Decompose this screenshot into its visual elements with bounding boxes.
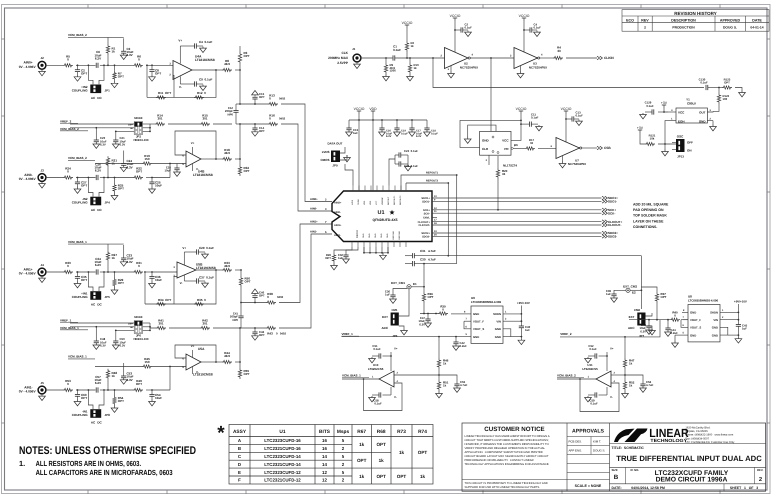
resistor R35 0 [194,302,204,305]
svg-text:OPT: OPT [259,129,265,133]
svg-text:LTC2321CUFD-12: LTC2321CUFD-12 [264,478,301,483]
capacitor C17 10uF 6.3V [411,120,413,128]
svg-text:SHDN: SHDN [493,312,501,316]
svg-text:1k: 1k [112,50,116,54]
svg-text:AIN1-: AIN1- [334,234,341,237]
rail VCCIO at U6 [519,111,523,114]
svg-text:NP0: NP0 [228,112,234,116]
title block outer box [462,423,766,491]
svg-text:U1: U1 [279,429,285,435]
U10 input from divider [394,374,439,376]
svg-text:CNVL: CNVL [423,217,430,220]
resistor R29 OPT [114,271,116,273]
capacitor C2 OPT [75,70,80,72]
svg-text:GND: GND [386,233,389,238]
svg-text:1k: 1k [359,474,365,479]
CSB output arrow [582,147,597,149]
capacitor C44 2.2uF [667,320,669,328]
svg-text:VERIFY PROPER AND RELIABLE OPE: VERIFY PROPER AND RELIABLE OPERATION IN … [465,447,546,450]
svg-text:OPT: OPT [81,396,87,400]
op-amp U4A LT1818CMS8 [173,61,192,80]
svg-text:TRUE DIFFERENTIAL INPUT DUAL A: TRUE DIFFERENTIAL INPUT DUAL ADC [616,454,762,463]
svg-text:OPT: OPT [376,442,386,447]
ground at CM1 ADC pin [401,329,408,335]
capacitor C25 10uF [149,182,154,184]
resistor R46 1k [437,358,440,369]
svg-text:AIN1+: AIN1+ [310,221,318,224]
svg-text:E2: E2 [632,291,636,295]
svg-text:U1: U1 [377,210,384,216]
svg-text:OUT: OUT [699,111,706,115]
capacitors C22 C23 0.1uF [395,154,399,156]
svg-text:OPT: OPT [428,295,434,299]
svg-text:LTC2321CUFD-14: LTC2321CUFD-14 [264,462,301,467]
svg-text:SHDN: SHDN [710,311,718,315]
svg-text:R12 0: R12 0 [197,91,206,95]
wire to series cap [76,271,96,273]
resistor R34 OPT [156,302,166,305]
svg-text:EXT_CM1: EXT_CM1 [391,281,405,285]
svg-text:GND: GND [712,326,718,330]
wire U1 output SDO2+ [432,232,602,234]
capacitor C11 0.1uF [521,123,529,125]
channel3 column down to AIN1+ net [240,287,242,303]
oscillator feedback line [433,58,704,88]
resistor R43 0 0402 [266,326,276,329]
U9 pin stubs [462,313,471,315]
svg-text:1k: 1k [379,458,385,463]
coupling jumper JP1 [88,65,93,84]
svg-text:33: 33 [530,141,534,145]
off-page arrow SDO1- [602,200,607,204]
capacitor C49 10uF 6.3V [648,320,650,326]
capacitor C40 1uF at U9 VIN rail [519,326,524,328]
U5B V- supply and capacitor C37 0.1uF [183,275,185,281]
resistor R17 33 [525,147,535,150]
svg-text:V-: V- [196,370,199,374]
svg-text:EXT: EXT [382,315,388,319]
svg-text:VOUT_S: VOUT_S [690,326,701,330]
svg-text:10uF: 10uF [155,396,162,400]
bias capacitor C33 10uF 6.3V [123,245,125,258]
U4A V+ supply and capacitor C4 0.1uF [179,46,181,64]
svg-text:APP ENG.: APP ENG. [569,448,583,452]
svg-text:2: 2 [759,476,762,483]
U4A feedback rail with R11 R12 [192,69,216,71]
svg-text:REFGND: REFGND [398,231,401,240]
svg-text:Phone: (408)432-1900 www.lin: Phone: (408)432-1900 www.linear.com [685,434,734,437]
resistor R31 0 [133,270,143,273]
capacitor C46 OPT hanging below [254,328,256,332]
svg-text:E: E [238,470,241,475]
svg-text:GND: GND [690,333,696,337]
svg-text:ADC: ADC [382,326,389,330]
svg-text:THIS CIRCUIT IS PROPRIETARY TO: THIS CIRCUIT IS PROPRIETARY TO LINEAR TE… [465,482,548,485]
capacitor C21 10uF 6.3V [115,131,117,140]
svg-text:ALL RESISTORS ARE IN OHMS, 060: ALL RESISTORS ARE IN OHMS, 0603. [36,459,142,468]
svg-text:NP0: NP0 [233,318,239,322]
ground stub below jumper common [664,144,666,149]
capacitor C42 2.2uF [455,337,457,342]
wire U1 output SCK+ [432,209,602,211]
resistor R51 1k [438,375,440,380]
svg-text:150: 150 [144,157,149,161]
customer notice divider [462,479,567,481]
capacitor C30 4.7uF [405,263,412,265]
svg-text:VREFBF: VREFBF [381,196,384,205]
svg-text:200MHz MAX: 200MHz MAX [328,56,349,60]
svg-text:100: 100 [723,97,728,101]
header right side ties [143,123,150,125]
resistor R6 0 [133,64,143,67]
svg-text:VIN: VIN [713,318,718,322]
svg-text:R74: R74 [418,429,427,435]
svg-text:HD2X3-100: HD2X3-100 [133,337,148,341]
svg-text:OPT: OPT [118,281,124,285]
wire JP9 to gnd stub [340,147,345,153]
wire to second series resistor [108,389,133,391]
wire header row3 [116,130,134,132]
svg-text:C4 0.1uF: C4 0.1uF [199,40,213,44]
svg-text:VDD: VDD [363,200,366,205]
svg-text:6.3V: 6.3V [127,260,133,264]
wire U2 to U3 [470,57,514,59]
svg-text:49.9: 49.9 [224,264,230,268]
off-page arrow SDO2+ [602,231,607,235]
frame zone tick marks left [2,39,5,423]
junction at coupling jumper left [88,389,90,391]
capacitor C19 0.1uF [396,120,398,128]
svg-text:F: F [238,478,241,483]
svg-text:16: 16 [322,446,327,451]
svg-text:1k: 1k [443,362,447,366]
svg-text:2: 2 [644,25,646,29]
U11 input from divider [611,374,625,376]
U6 PR output through R17 33 [511,147,513,149]
svg-text:2.5VPP: 2.5VPP [337,61,349,65]
wire U1 output SCK- [432,212,602,214]
svg-text:VREF_2: VREF_2 [560,332,572,336]
wire REFOUT1 drop to C30 line [456,175,458,264]
svg-text:PCB DES.: PCB DES. [569,439,583,443]
svg-text:ADD 20 MIL SQUARE: ADD 20 MIL SQUARE [633,203,669,207]
svg-text:REFOUT2: REFOUT2 [426,179,439,182]
op-amp U5A LT1819CMS8 [186,354,201,370]
resistor R45 150 [142,365,152,368]
Y1 EOH wire to enable jumper [665,121,668,144]
U3 ground pin [520,66,522,72]
wire to second series resistor [108,177,133,179]
frame zone tick marks right [767,39,770,423]
svg-text:R73: R73 [397,429,406,435]
rail VDD above U1 [371,111,375,114]
svg-text:DATE:: DATE: [612,486,622,490]
channel4 output node [239,361,241,363]
svg-text:4.7uF: 4.7uF [460,383,468,387]
svg-text:JP4: JP4 [105,201,111,205]
svg-text:OPT: OPT [259,95,265,99]
svg-text:LT1819CMS8: LT1819CMS8 [196,266,216,270]
svg-text:LTC6655BHMS8-4.096: LTC6655BHMS8-4.096 [471,300,502,304]
off-page arrow CLKOUT+ [602,220,607,224]
svg-text:CLKIN: CLKIN [604,56,614,60]
ground below J1 [354,62,361,69]
wire J1 to C1 [361,57,393,59]
resistor R2 1k pullup [405,41,408,52]
wire after series cap [100,177,108,179]
svg-text:10uF: 10uF [164,169,171,173]
svg-text:OPT: OPT [81,278,87,282]
svg-text:6.3V: 6.3V [419,322,425,326]
svg-text:0.1uF: 0.1uF [393,48,401,52]
capacitor C15 OPT flying above [254,99,256,104]
capacitor C4 0.1uF [530,27,532,32]
svg-text:1k: 1k [359,442,365,447]
capacitor C54 10uF [149,395,154,397]
svg-text:JP7: JP7 [639,334,645,338]
svg-text:REFOUT1: REFOUT1 [426,171,439,174]
svg-text:10k: 10k [650,137,655,141]
svg-text:1uF: 1uF [338,256,343,260]
svg-text:AIN0-: AIN0- [310,208,317,211]
U11 V+ and capacitor C52 0.1uF [606,356,608,371]
bias resistor R1 1k [106,44,109,55]
svg-text:VCC: VCC [375,200,378,205]
svg-text:EXT: EXT [629,315,635,319]
ground below J2 [39,69,46,76]
svg-text:C22 0.1uF: C22 0.1uF [404,149,418,153]
capacitor C8 OPT [149,70,154,72]
svg-text:1uF: 1uF [742,327,747,331]
rail +3V at Y1 [662,105,666,108]
svg-text:VCM_BIAS_2: VCM_BIAS_2 [68,156,87,160]
svg-text:SCALE = NONE: SCALE = NONE [575,484,602,488]
svg-text:6.2V: 6.2V [95,381,101,385]
svg-text:6.2V: 6.2V [95,169,101,173]
svg-text:SHEET 1 OF 3: SHEET 1 OF 3 [730,486,758,490]
U5B V+ supply and capacitor C29 0.1uF [183,252,185,265]
svg-text:OPT: OPT [661,295,667,299]
off-page arrow SCK- [602,211,607,215]
svg-text:U5A: U5A [198,347,205,351]
ground below J4 [39,276,46,283]
svg-text:PRODUCTION: PRODUCTION [672,25,695,29]
Y1 pin stubs [668,111,676,113]
output resistor R4 33 [540,57,553,59]
svg-text:V+: V+ [182,246,186,250]
svg-text:OPT: OPT [259,333,265,337]
resistor R25 OPT [114,177,116,179]
wire J5 to R53 [46,389,63,391]
U11 V- and capacitor C59 0.1uF [606,387,608,395]
wire channel3 line to op amp [152,271,177,273]
junction at second opt cap [151,271,153,273]
U5A V- stub [192,367,194,374]
U10 V- and capacitor C58 0.1uF [390,387,392,395]
svg-text:0.1uF: 0.1uF [431,132,438,135]
svg-text:33: 33 [502,172,506,176]
resistor R50 OPT on channel3 column [240,270,242,276]
output resistor R33 49.9 [216,269,222,271]
svg-text:GND: GND [368,233,371,238]
svg-text:VCM_BIAS_1: VCM_BIAS_1 [60,326,79,330]
wire U1 output SDO1- [432,200,602,202]
svg-text:REFIO: REFIO [356,230,359,238]
svg-text:C29 0.1uF: C29 0.1uF [199,246,214,250]
rca jack J4 [38,268,46,276]
ADC U1 QFN28UFD body [332,191,432,242]
svg-text:DOUG S.: DOUG S. [723,25,737,29]
channel2 column up to AIN2- net [239,124,241,159]
capacitor C12 200pF NP0 across pair [235,104,237,110]
svg-text:2.2uF: 2.2uF [671,331,679,335]
svg-text:V+: V+ [191,344,195,348]
svg-text:0V - 4.096V: 0V - 4.096V [19,177,37,181]
resistor R3 OPT [239,64,241,70]
rca jack J3 [38,174,46,182]
svg-text:V+: V+ [191,141,195,145]
wire common mode reference to E2 [448,255,641,257]
svg-text:0.1uF: 0.1uF [576,114,584,118]
svg-text:301: 301 [202,117,207,121]
capacitor C2 0.1uF [461,27,463,32]
svg-text:R68: R68 [377,429,386,435]
svg-text:REVISION HISTORY: REVISION HISTORY [674,11,717,16]
channel2 output node [239,158,241,160]
resistor R13 0 0402 [268,102,278,105]
wire channel2 main line to junction [152,177,170,179]
svg-text:U8: U8 [688,294,692,298]
svg-text:VOUT_F: VOUT_F [690,318,701,322]
net VREF_2 long line [560,320,660,337]
capacitor C27 OPT [75,182,80,184]
size and part number row [610,466,766,468]
svg-text:0.1uF: 0.1uF [531,116,539,120]
svg-text:VCCIO: VCCIO [519,14,530,18]
rail VCCIO for clock divider [405,25,409,28]
wire VCM_BIAS_1 row to header [70,326,134,328]
wire U1 output CLKOUT- [432,224,602,226]
svg-text:LTC2323CUFD-12: LTC2323CUFD-12 [264,470,301,475]
off-page arrow SDO1+ [602,196,607,200]
wire to series cap [76,389,96,391]
series capacitor C57 10uF 6.2V [96,387,98,392]
svg-text:0.1uF: 0.1uF [465,26,473,30]
svg-text:6.3V: 6.3V [127,378,133,382]
svg-text:VOUT_S: VOUT_S [473,327,484,331]
capacitor C60 OPT [75,395,80,397]
svg-text:Msps: Msps [337,429,350,435]
svg-text:AIN2+: AIN2+ [334,201,342,204]
svg-text:J4: J4 [41,263,45,267]
svg-text:OPT: OPT [376,474,386,479]
U4A V- supply and capacitor C9 0.1uF [179,76,181,84]
net AIN1- line with R43 [241,327,266,329]
svg-text:MODE: MODE [134,315,143,319]
svg-text:B: B [238,446,241,451]
wire header row3 [116,329,134,331]
junction at C-opt branch [77,271,79,273]
oscillator Y1 C80LV [676,108,707,123]
svg-text:C37 0.1uF: C37 0.1uF [199,276,214,280]
svg-text:OPT: OPT [245,280,251,284]
svg-text:JP1: JP1 [105,88,111,92]
series capacitor C6 10uF 6.2V [96,63,98,68]
svg-text:1k: 1k [112,374,116,378]
svg-text:6.3V: 6.3V [120,344,126,348]
svg-text:301: 301 [157,117,162,121]
resistor R30 0 [63,270,73,273]
wire R46 top to VREF_1 line [438,337,440,358]
U8 gnd pins tied [720,327,728,335]
resistor R22 OPT [133,176,143,179]
resistor R12 0 [194,96,204,99]
svg-text:VCCIO: VCCIO [354,107,365,111]
svg-text:VIN: VIN [496,320,501,324]
svg-text:VOUT_F: VOUT_F [473,320,484,324]
svg-text:TECHNOLOGY: TECHNOLOGY [650,438,687,443]
title row [610,443,766,445]
capacitor C47 10uF 6.3V [427,314,429,320]
svg-text:LVDS: LVDS [322,150,330,154]
op-amp U5B LT1819CMS8 [177,262,196,278]
flip-flop U6 NL17SZ74 [480,131,511,155]
svg-text:LT6202CS5: LT6202CS5 [582,367,598,371]
svg-text:JP9: JP9 [332,164,338,168]
svg-text:04/01/2014, 12:58 PM: 04/01/2014, 12:58 PM [631,486,665,490]
wire to second series resistor [108,271,133,273]
svg-text:NC7SZ04P5X: NC7SZ04P5X [460,66,478,70]
channel1 column down to AIN2+ net [239,70,241,104]
svg-text:TITLE: SCHEMATIC: TITLE: SCHEMATIC [612,446,645,450]
svg-text:0.1uF: 0.1uF [646,104,654,108]
svg-text:SDO1-: SDO1- [608,200,617,204]
resistors R14 R15 301 on mode line [150,123,155,125]
customer notice panel [566,423,568,491]
svg-text:GND: GND [699,119,707,123]
svg-text:LT6202CS5: LT6202CS5 [368,367,384,371]
svg-text:Milpitas, CA 95035: Milpitas, CA 95035 [685,430,708,433]
svg-text:+3V: +3V [637,126,644,130]
channel1 output node [239,69,241,71]
capacitor C20 10uF 6.3V [95,128,97,140]
svg-text:JP13: JP13 [677,155,684,159]
svg-text:C9 0.1uF: C9 0.1uF [199,78,213,82]
wire to second series resistor [108,64,133,66]
wire CM2 ADC pin [646,326,653,329]
svg-text:VCM_BIAS_1: VCM_BIAS_1 [342,374,361,378]
svg-text:DIFF: DIFF [128,322,134,325]
svg-text:VCC: VCC [502,138,509,142]
svg-text:14: 14 [322,462,327,467]
svg-text:1uF: 1uF [353,131,358,135]
inverter U2 NC7SZ04P5X [445,48,469,69]
svg-text:PAD OPENING ON: PAD OPENING ON [633,208,664,212]
svg-text:301: 301 [202,322,207,326]
capacitor C25 at op amp input [176,164,178,169]
svg-text:V-: V- [180,281,183,285]
svg-text:SDO2-: SDO2- [422,236,430,239]
U6 CLR tie high loop [460,120,521,147]
junction at coupling jumper left [88,177,90,179]
capacitor C13 0.1uF [572,116,574,121]
bias capacitor C53 10uF 6.3V [123,363,125,376]
svg-text:0V - 4.096V: 0V - 4.096V [19,65,37,69]
svg-text:12: 12 [322,478,327,483]
resistor R123 OPT [719,87,722,89]
svg-text:AIN1-: AIN1- [310,231,317,234]
U1 top pin stubs [352,186,354,192]
